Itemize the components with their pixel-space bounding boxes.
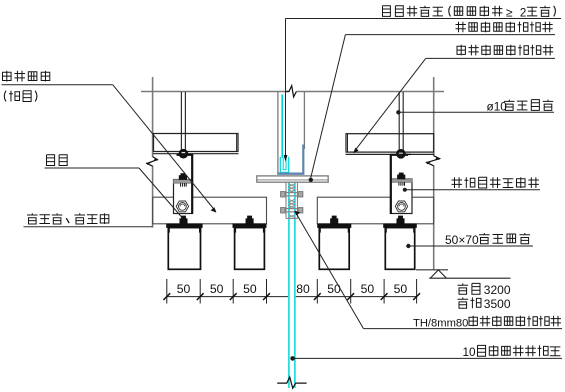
leader: steel plate label diagonal + dot on plate [345, 34, 555, 36]
steel channel - right [346, 134, 434, 152]
hanger rod phi10 - left (double line) [180, 92, 182, 152]
50x70 square tube ceiling member - tube 1 body [168, 228, 200, 270]
hex nut on right bracket [395, 201, 407, 212]
label: wu fang bu feng du (nai huo ji xian >= 2 xiao shi) [383, 6, 391, 17]
bolt (luoshuan) on left bracket [179, 176, 186, 180]
label: zhan tai 3200 [458, 283, 469, 294]
leader: 10mm fire glass label + dot on glass [293, 357, 562, 359]
wire - ceiling slab soffit line (right segment) [297, 91, 445, 93]
50x70 square tube ceiling member - tube 2 top clip bar [233, 224, 266, 228]
right zone box (suspended ceiling zone outline) [317, 197, 433, 224]
50x70 square tube ceiling member - tube 3 body [319, 228, 349, 270]
leader: 50x70 tube label + dot [408, 245, 533, 247]
break symbol on left vertical line [147, 157, 157, 167]
wire - ceiling finish level line right of right assembly [416, 269, 448, 271]
clip tabs at tube 4 ends [385, 228, 387, 233]
50x70 square tube ceiling member - tube 4 body [385, 228, 414, 270]
break symbol on slab line (top center) [286, 86, 296, 97]
steel plate (fire/rust treated) under glass head [257, 176, 328, 182]
dimension extension line / tick 7 [383, 279, 385, 304]
label: gang ban fang huo fang xiu chu li [456, 22, 466, 33]
leader: angle keel label (top-left) diagonal + arrow [2, 84, 113, 86]
break symbol on right vertical line [427, 156, 440, 166]
dimension extension line / tick 1 [166, 279, 168, 304]
dimension extension line / tick 8 [416, 279, 418, 304]
clip tabs at tube 1 ends [168, 228, 170, 233]
leader: TH/8mm80 angle label elbow + arrow to rod [295, 212, 363, 329]
svg-text:2: 2 [520, 7, 526, 19]
clip tabs at tube 3 ends [319, 228, 321, 233]
svg-text:3500: 3500 [484, 297, 511, 311]
50x70 square tube ceiling member - tube 1 top clip bar [167, 224, 203, 228]
threaded suspension rod below plate [285, 182, 287, 218]
svg-text:TH/8mm80: TH/8mm80 [413, 317, 468, 329]
label: luo shuan (bolt) [47, 155, 55, 166]
leader: angle steel fireproof label diagonal + arrow [426, 57, 555, 59]
lower clamp nut with washers on rod [281, 208, 303, 210]
svg-text:3200: 3200 [484, 283, 511, 297]
steel angle at glass head, painted blue - horizontal leg [277, 172, 304, 174]
svg-text:50: 50 [394, 282, 408, 296]
upper/lower clip bolt on tube 4 [397, 219, 405, 224]
label: fang tong shang, xia kou jian [27, 213, 38, 224]
bracket box - left removable angle bracket [174, 180, 193, 214]
dimension extension line / tick 5 [316, 279, 318, 304]
elevation level symbol (open triangle) for platform/hall [429, 277, 510, 279]
left zone box (suspended ceiling zone outline) [153, 197, 267, 224]
label: zhan ting 3500 [458, 297, 469, 308]
svg-text:50: 50 [210, 282, 224, 296]
wire - left structural vertical line [152, 77, 154, 157]
upper clamp nut with washers on rod [281, 192, 303, 194]
wire - glass slot left gray edge [277, 92, 279, 173]
svg-text:80: 80 [296, 282, 310, 296]
upper glass bottom U channel (cyan) [280, 157, 288, 173]
steel channel - left [154, 134, 239, 152]
lower 10mm fire glass pane - left cyan edge [288, 183, 290, 389]
svg-text:50: 50 [361, 282, 375, 296]
wire - ceiling slab soffit line (left segment) [141, 91, 289, 93]
upper/lower clip bolt on tube 2 [246, 219, 254, 224]
steel angle at glass head, painted blue - vertical leg [302, 145, 304, 173]
hex nut on left bracket [176, 201, 188, 212]
label: (hei se) [4, 91, 6, 102]
label: jiao gang long gu [3, 71, 12, 82]
upper fire glass pane (cyan line) [281, 95, 283, 159]
label: ke chai xie an zhuang jiao ma [452, 177, 463, 188]
upper/lower clip bolt on tube 3 [330, 219, 338, 224]
angle steel runner (painted black) - left L [177, 154, 194, 156]
dimension line (right part) [296, 296, 417, 298]
wire - glass slot right gray edge [303, 92, 305, 149]
bolt ring at left hanger bottom [180, 150, 187, 157]
50x70 square tube ceiling member - tube 2 body [235, 228, 265, 270]
tube clip rail thin line (left label underline continues) [24, 226, 153, 228]
rod thread hatch marks [288, 184, 295, 187]
50x70 square tube ceiling member - tube 3 top clip bar [318, 224, 352, 228]
break symbol at bottom of glass [277, 377, 306, 388]
bolt ring at right hanger bottom [397, 150, 404, 157]
leader: non-woven fabric seal label to glass head (elbow + down arrow) [286, 18, 562, 20]
dimension extension line / tick 3 [232, 279, 234, 304]
hanger rod phi10 - right (double line) [398, 92, 400, 152]
svg-text:50×70: 50×70 [445, 233, 479, 247]
bracket box - right removable angle bracket [391, 179, 412, 214]
dimension extension line / tick 2 [199, 279, 201, 304]
clip tabs at tube 2 ends [234, 228, 236, 233]
label: jiao gang fang huo fang xiu chu li [457, 45, 465, 56]
dimension line (left part) [167, 296, 288, 298]
wire - right structural vertical line [433, 77, 435, 156]
leader: phi10 hanger rod label + dot [398, 111, 554, 113]
svg-text:≥: ≥ [506, 5, 513, 19]
leader: bolt label (luoshuan) diagonal [45, 167, 140, 169]
angle steel runner (painted black) - right L [390, 154, 408, 156]
bolt on right bracket [398, 175, 405, 179]
svg-text:50: 50 [243, 282, 257, 296]
leader: removable bracket label + dot [405, 189, 540, 191]
dimension extension line / tick 6 [350, 279, 352, 304]
upper/lower clip bolt on tube 1 [180, 219, 188, 224]
svg-text:50: 50 [177, 282, 191, 296]
svg-text:10: 10 [463, 345, 477, 359]
50x70 square tube ceiling member - tube 4 top clip bar [384, 224, 417, 228]
svg-text:50: 50 [327, 282, 341, 296]
dimension extension line / tick 4 [266, 279, 268, 304]
lower 10mm fire glass pane - right cyan edge [294, 183, 296, 389]
